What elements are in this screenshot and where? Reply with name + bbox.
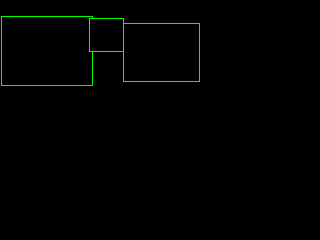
left box bottom edge	[1, 85, 93, 86]
middle box bottom edge	[89, 51, 124, 52]
middle box left edge	[89, 18, 90, 52]
left box top edge	[1, 16, 93, 17]
right box right edge	[199, 23, 200, 82]
right box top edge	[123, 23, 200, 24]
right box bottom edge	[123, 81, 200, 82]
middle box right edge / right box left edge	[123, 18, 124, 82]
left box left edge	[1, 16, 2, 86]
left box right edge lower segment	[92, 51, 93, 86]
left box right edge upper jog	[92, 16, 93, 19]
middle box top edge	[89, 18, 124, 19]
